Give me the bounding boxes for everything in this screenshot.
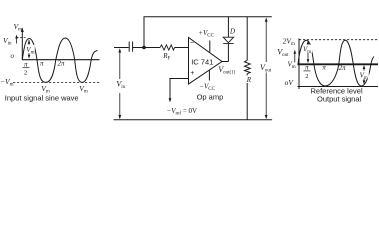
Vin measure arrow (119, 52, 121, 118)
capacitor C plate 2 (132, 42, 134, 52)
right graph 2Vm dashed line (299, 39, 378, 41)
right graph y-axis (298, 39, 300, 90)
svg-text:+: + (190, 70, 194, 77)
svg-text:Op amp: Op amp (197, 92, 224, 101)
svg-text:π: π (24, 61, 28, 69)
opamp output wire (222, 61, 228, 63)
right graph oV line (298, 86, 379, 88)
Vm arrow in first output hump (307, 42, 309, 62)
Vm measure arrow in first hump (28, 40, 30, 57)
wire capacitor to node A (133, 47, 160, 49)
Vin up arrow (16, 36, 18, 44)
left graph y-axis arrowhead (21, 28, 24, 33)
diode D symbol (223, 37, 233, 43)
capacitor C plate 1 (128, 42, 130, 52)
svg-text:IC 741: IC 741 (191, 57, 213, 66)
resistor R zigzag (245, 60, 251, 73)
left graph -Vm dashed line (13, 81, 100, 83)
svg-text:2: 2 (24, 70, 27, 77)
bottom rail (114, 119, 273, 121)
Vout up arrow (right graph) (294, 51, 296, 63)
-Vcc wire (208, 70, 210, 81)
svg-text:2π: 2π (58, 60, 66, 68)
resistor R wire top (246, 17, 248, 61)
resistor R wire bottom (246, 74, 248, 120)
svg-text:o: o (11, 52, 15, 60)
-Vref arrowhead (169, 98, 172, 102)
output sine wave (298, 40, 374, 86)
left graph y-axis (21, 32, 23, 60)
node A junction dot (142, 46, 146, 50)
svg-text:−: − (190, 40, 194, 47)
svg-text:D: D (229, 28, 235, 36)
input wire left segment (114, 47, 129, 49)
input sine wave (22, 38, 97, 82)
svg-text:2π: 2π (339, 64, 347, 72)
label Vout (circuit) (260, 63, 273, 72)
right graph reference level line (bold) (298, 63, 379, 65)
plus input wire (170, 79, 189, 101)
left graph Vm short dashed line (17, 37, 26, 39)
Vm arrow in last trough (363, 66, 365, 83)
svg-text:Output signal: Output signal (317, 95, 362, 104)
label Vm inside hump (25, 45, 35, 53)
label R (246, 75, 253, 83)
diode branch wire lower (227, 44, 229, 62)
opamp triangle U1 (189, 38, 223, 85)
left graph x-axis (22, 59, 99, 61)
svg-text:Input signal sine wave: Input signal sine wave (5, 94, 79, 103)
diode branch wire upper (227, 17, 229, 37)
label Vm in first hump (right) (303, 45, 313, 53)
svg-text:oV: oV (285, 78, 295, 87)
feedback wire node A up and across (144, 17, 272, 48)
svg-text:2: 2 (305, 73, 308, 80)
label Vm in last trough (359, 71, 369, 79)
svg-text:π: π (322, 63, 326, 71)
+Vcc wire (209, 41, 211, 53)
wire RF to opamp inverting input (175, 47, 189, 49)
resistor RF zigzag (160, 45, 175, 50)
svg-text:R: R (246, 76, 252, 84)
svg-text:π: π (40, 60, 44, 68)
Vout measure arrow (265, 19, 267, 117)
svg-text:π: π (305, 63, 309, 71)
